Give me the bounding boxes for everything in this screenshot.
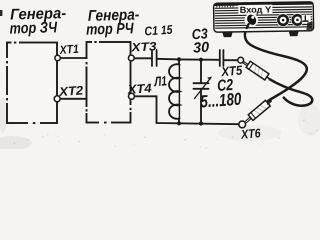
terminal XT5 [238,57,244,63]
instrument millivoltmeter front panel [214,2,314,37]
svg-text:С1 15: С1 15 [144,23,174,39]
node L1 bottom [177,121,181,125]
instrument body [214,2,314,32]
case shadow right [306,22,312,30]
wire XT3 to C1 [134,57,152,59]
wire XT1 to RF generator [60,57,86,59]
label Генера- тор ЗЧ [9,5,66,37]
node L1 top [177,57,181,61]
cable loop from XT5 probe [270,79,312,105]
svg-text:ХТ1: ХТ1 [58,42,79,57]
terminal XT2 [54,96,60,102]
node C2 top [199,58,203,62]
wire XT2 to RF generator [60,98,87,100]
foot right [289,31,299,36]
wire XT4 to drop [135,96,157,123]
wire C1 to tank top rail [157,58,179,61]
capacitor C1 [152,50,157,66]
knob right [291,13,304,26]
wire bottom rail [157,123,240,124]
plug in Вход Y jack [244,13,258,28]
instrument top-left ticks [217,3,233,7]
inductor L1 [169,59,180,123]
svg-text:ХТ6: ХТ6 [240,126,262,142]
svg-text:тор РЧ: тор РЧ [86,20,135,38]
svg-text:ХТ2: ХТ2 [58,83,84,99]
foot left [222,32,233,37]
scan dash-dot gaps on box edges [7,42,131,123]
probe plug at XT6 [246,100,272,122]
terminal XT1 [55,55,60,60]
box generator AF "Генератор ЗЧ" [7,43,57,124]
svg-text:тор ЗЧ: тор ЗЧ [9,19,58,37]
probe plug at XT5 [243,61,270,80]
box generator RF "Генератор РЧ" [87,42,131,123]
scan smudges [0,10,320,150]
svg-text:Л1: Л1 [153,73,168,89]
svg-text:30: 30 [193,40,210,57]
svg-text:Вход Y: Вход Y [240,4,272,14]
svg-text:5...180: 5...180 [200,89,242,112]
wire top rail to C3 [179,58,220,60]
svg-text:ХТ3: ХТ3 [130,39,157,54]
panel hatch lines [215,7,311,28]
cable instrument plug to XT6 probe [245,28,307,101]
label Генера- тор РЧ [86,7,140,39]
capacitor C3 [220,50,224,66]
terminal XT3 [128,55,134,61]
capacitor C2 variable [194,60,212,123]
node C2 bottom [199,121,203,125]
knob left [276,13,289,26]
svg-text:ХТ4: ХТ4 [126,81,152,97]
wire C3 to XT5 [224,59,238,61]
terminal XT6 [239,121,246,128]
white patch behind label [238,5,272,15]
ground terminal symbol [302,15,311,24]
terminal XT4 [129,93,135,99]
instrument top edge band [215,3,312,4]
svg-text:ХТ5: ХТ5 [220,62,244,79]
